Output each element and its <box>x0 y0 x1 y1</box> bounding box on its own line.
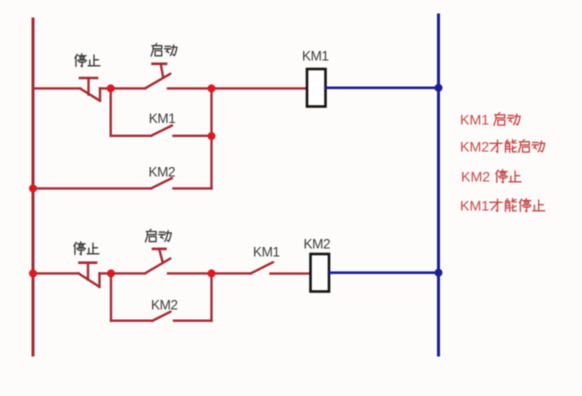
svg-text:KM1: KM1 <box>149 111 176 126</box>
svg-text:KM1: KM1 <box>460 113 489 129</box>
svg-text:KM2: KM2 <box>461 170 490 186</box>
svg-text:KM2: KM2 <box>149 165 176 180</box>
svg-text:KM2: KM2 <box>460 140 489 156</box>
svg-text:KM1: KM1 <box>460 199 489 215</box>
svg-text:KM1: KM1 <box>302 49 329 64</box>
svg-text:KM2: KM2 <box>304 236 331 251</box>
svg-text:KM2: KM2 <box>151 298 178 313</box>
svg-text:KM1: KM1 <box>253 245 280 260</box>
